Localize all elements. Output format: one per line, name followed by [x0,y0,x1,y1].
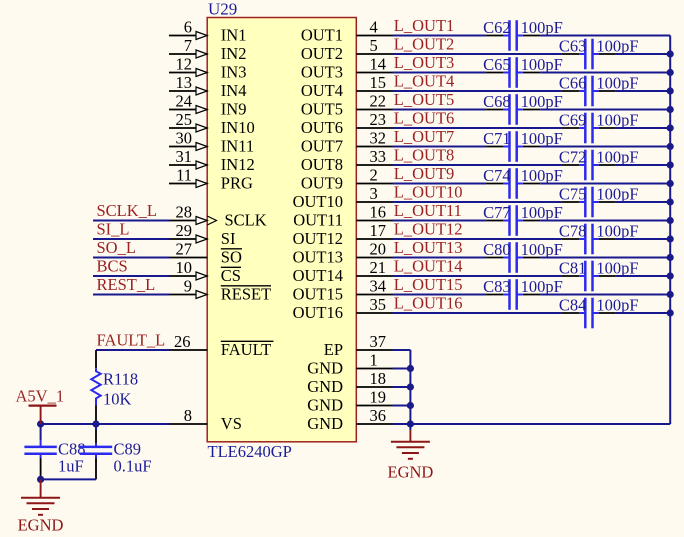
wire OUT2 pin to capacitor C63 [393,53,562,55]
svg-text:OUT16: OUT16 [293,303,343,322]
junction node VS at A5V_1 [37,420,44,427]
svg-text:100pF: 100pF [596,185,638,204]
designator label C78 [559,222,587,241]
svg-text:OUT6: OUT6 [301,118,343,137]
wire capacitor C72 to right bus [616,164,670,166]
svg-text:OUT1: OUT1 [301,25,343,44]
wire net SI_L [93,238,169,240]
wire EP pin 37 to EP bus [393,349,411,351]
capacitor C88 [24,440,56,462]
svg-text:OUT15: OUT15 [293,284,343,303]
wire right vertical bus [669,36,671,425]
wire capacitor C78 to right bus [616,238,670,240]
wire C88 to ground node [40,461,42,479]
value label 100pF for C74 [521,166,563,185]
pin 25 IN10 input pin with arrow [169,110,255,137]
svg-text:100pF: 100pF [521,129,563,148]
power port A5V_1 symbol [29,406,57,424]
svg-text:100pF: 100pF [596,37,638,56]
junction right bus row 7 [667,143,674,150]
wire capacitor C66 to right bus [616,90,670,92]
junction right bus row 5 [667,106,674,113]
net label L_OUT4 [394,72,455,91]
value label 100pF for C83 [521,277,563,296]
svg-text:29: 29 [176,221,193,240]
svg-text:FAULT: FAULT [221,340,271,359]
svg-text:C80: C80 [483,240,511,259]
wire OUT5 pin to capacitor C68 [393,109,487,111]
value label 100pF for C75 [596,185,638,204]
junction right bus row 4 [667,87,674,94]
svg-text:IN11: IN11 [221,136,254,155]
net label L_OUT12 [394,220,463,239]
junction right bus row 3 [667,69,674,76]
wire OUT7 pin to capacitor C71 [393,146,487,148]
svg-text:GND: GND [307,358,343,377]
pin 19 GND pin [307,388,392,415]
svg-text:15: 15 [370,73,387,92]
wire OUT14 pin to capacitor C81 [393,275,562,277]
svg-text:21: 21 [370,258,387,277]
power label EGND right [387,462,433,481]
wire VS supply rail [41,423,169,425]
svg-text:24: 24 [176,92,193,111]
svg-text:SO: SO [221,247,242,266]
svg-text:SI: SI [221,229,236,248]
wire FAULT_L corner down to resistor [95,350,97,368]
pin 13 IN4 input pin with arrow [169,73,246,100]
pin 23 OUT6 output pin [301,110,393,137]
svg-text:100pF: 100pF [596,111,638,130]
svg-text:EGND: EGND [387,462,433,481]
svg-text:100pF: 100pF [596,259,638,278]
svg-text:L_OUT14: L_OUT14 [394,257,463,276]
svg-text:28: 28 [176,203,193,222]
wire capacitor C81 to right bus [616,275,670,277]
net label L_OUT2 [394,35,455,54]
svg-text:100pF: 100pF [521,203,563,222]
svg-text:IN1: IN1 [221,25,247,44]
net label L_OUT15 [394,275,463,294]
svg-text:100pF: 100pF [521,240,563,259]
net label L_OUT1 [394,16,455,35]
svg-text:6: 6 [184,18,192,37]
svg-text:L_OUT2: L_OUT2 [394,35,455,54]
pin 24 IN9 input pin with arrow [169,92,246,119]
svg-text:U29: U29 [208,0,237,18]
svg-text:C63: C63 [559,37,587,56]
pin 30 IN11 input pin with arrow [169,129,254,156]
capacitor C74 [486,168,540,199]
svg-text:36: 36 [370,406,387,425]
junction right bus row 6 [667,124,674,131]
svg-text:C81: C81 [559,259,587,278]
capacitor C69 [562,113,616,144]
wire OUT15 pin to capacitor C83 [393,294,487,296]
svg-text:C84: C84 [559,296,587,315]
capacitor C63 [562,39,616,70]
pin 11 PRG input pin with arrow [169,166,253,193]
net label SCLK_L [97,201,158,220]
value label 0.1uF [114,457,152,476]
svg-text:7: 7 [184,36,192,55]
pin 2 OUT9 output pin [301,166,393,193]
value label 1uF [58,457,84,476]
svg-text:OUT2: OUT2 [301,44,343,63]
pin 12 IN3 input pin with arrow [169,55,246,82]
wire net SCLK_L [93,220,169,222]
svg-text:11: 11 [176,166,192,185]
wire OUT13 pin to capacitor C80 [393,257,487,259]
junction EP bus row 19 [407,365,414,372]
svg-text:C78: C78 [559,222,587,241]
net label L_OUT6 [394,109,455,128]
designator label C65 [483,55,511,74]
svg-text:L_OUT11: L_OUT11 [394,201,462,220]
wire VS node to C89 [95,424,97,430]
svg-text:0.1uF: 0.1uF [114,457,152,476]
svg-text:34: 34 [370,277,387,296]
resistor R118 [91,368,100,405]
svg-text:IN2: IN2 [221,44,247,63]
svg-text:IN10: IN10 [221,118,255,137]
svg-text:SI_L: SI_L [97,220,130,239]
svg-text:C74: C74 [483,166,511,185]
svg-text:L_OUT1: L_OUT1 [394,16,455,35]
svg-text:L_OUT6: L_OUT6 [394,109,455,128]
wire capacitor C68 to right bus [540,109,670,111]
svg-text:C75: C75 [559,185,587,204]
svg-text:OUT5: OUT5 [301,99,343,118]
svg-text:14: 14 [370,55,387,74]
designator label C77 [483,203,511,222]
designator label C66 [559,74,587,93]
value label 100pF for C72 [596,148,638,167]
wire net BCS [93,275,169,277]
pin 5 OUT2 output pin [301,36,393,63]
svg-text:OUT10: OUT10 [293,192,343,211]
capacitor C62 [486,20,540,51]
junction right bus row 9 [667,180,674,187]
wire capacitor C84 to right bus [616,312,670,314]
svg-text:4: 4 [370,18,378,37]
wire capacitor C80 to right bus [540,257,670,259]
value label 100pF for C80 [521,240,563,259]
svg-text:BCS: BCS [97,257,128,276]
pin 6 IN1 input pin with arrow [169,18,246,45]
svg-text:31: 31 [176,147,193,166]
ground EGND left symbol [21,479,60,514]
svg-text:C68: C68 [483,92,511,111]
junction right bus row 11 [667,217,674,224]
svg-text:25: 25 [176,110,193,129]
wire A5V node to C88 [40,424,42,440]
svg-text:PRG: PRG [221,173,253,192]
IC U29 TLE6240GP body [207,18,356,442]
pin 37 EP pin [324,332,393,359]
pin 20 OUT13 output pin [293,240,393,267]
svg-text:OUT11: OUT11 [293,210,343,229]
svg-text:IN4: IN4 [221,81,247,100]
capacitor C89 [80,430,112,462]
wire capacitor C75 to right bus [616,201,670,203]
svg-text:OUT13: OUT13 [293,247,343,266]
value label 10K [103,390,132,409]
svg-text:EP: EP [324,340,343,359]
svg-text:CS: CS [221,266,241,285]
capacitor C81 [562,261,616,292]
pin 17 OUT12 output pin [293,221,393,248]
svg-text:C72: C72 [559,148,587,167]
net label L_OUT7 [394,127,455,146]
wire GND pin 18 to EP bus [393,386,411,388]
svg-text:19: 19 [370,388,387,407]
wire GND pin 36 to EP bus [393,423,411,425]
svg-text:100pF: 100pF [521,92,563,111]
pin 7 IN2 input pin with arrow [169,36,246,63]
pin 9 RESET input pin with overline [169,277,271,304]
net label L_OUT16 [394,294,463,313]
net label L_OUT3 [394,53,455,72]
value label 100pF for C62 [521,18,563,37]
svg-text:C69: C69 [559,111,587,130]
svg-text:OUT14: OUT14 [293,266,343,285]
value label 100pF for C65 [521,55,563,74]
pin 15 OUT4 output pin [301,73,393,100]
pin 36 GND pin [307,406,392,433]
value label 100pF for C68 [521,92,563,111]
junction right bus row 12 [667,235,674,242]
junction right bus row 10 [667,198,674,205]
net label L_OUT9 [394,164,455,183]
junction EP bus row 22 [407,420,414,427]
capacitor C80 [486,242,540,273]
svg-text:100pF: 100pF [521,277,563,296]
svg-text:OUT3: OUT3 [301,62,343,81]
junction right bus row 14 [667,272,674,279]
designator label C72 [559,148,587,167]
wire OUT1 pin to capacitor C62 [393,35,487,37]
wire OUT4 pin to capacitor C66 [393,90,562,92]
designator label C68 [483,92,511,111]
svg-text:20: 20 [370,240,387,259]
wire OUT6 pin to capacitor C69 [393,127,562,129]
designator label C84 [559,296,587,315]
svg-text:100pF: 100pF [596,74,638,93]
svg-text:RESET: RESET [221,284,271,303]
pin 31 IN12 input pin with arrow [169,147,255,174]
wire net REST_L [93,294,169,296]
wire GND pin 19 to EP bus [393,405,411,407]
capacitor C84 [562,298,616,329]
svg-text:OUT4: OUT4 [301,81,343,100]
pin 32 OUT7 output pin [301,129,393,156]
capacitor C68 [486,94,540,125]
wire OUT16 pin to capacitor C84 [393,312,562,314]
value label 100pF for C77 [521,203,563,222]
svg-text:100pF: 100pF [596,296,638,315]
svg-text:C83: C83 [483,277,511,296]
pin 33 OUT8 output pin [301,147,393,174]
capacitor C71 [486,131,540,162]
net label L_OUT14 [394,257,463,276]
net label L_OUT13 [394,238,463,257]
capacitor C72 [562,150,616,181]
svg-text:FAULT_L: FAULT_L [97,331,166,350]
pin 1 GND pin [307,351,392,378]
svg-text:23: 23 [370,110,387,129]
designator label C80 [483,240,511,259]
svg-text:30: 30 [176,129,193,148]
svg-text:GND: GND [307,414,343,433]
wire resistor R118 to VS node [95,406,97,425]
capacitor C75 [562,187,616,218]
svg-text:SCLK: SCLK [225,210,267,229]
power label A5V_1 [16,386,65,405]
junction right bus row 2 [667,50,674,57]
capacitor C66 [562,76,616,107]
svg-text:3: 3 [370,184,378,203]
designator label C88 [58,440,86,459]
pin 10 CS input pin with overline [169,258,241,285]
svg-text:12: 12 [176,55,193,74]
designator label C81 [559,259,587,278]
svg-text:2: 2 [370,166,378,185]
pin 8 VS pin [169,406,242,433]
value label TLE6240GP [208,442,292,461]
svg-text:OUT12: OUT12 [293,229,343,248]
junction right bus row 16 [667,309,674,316]
designator label C89 [114,440,142,459]
wire OUT9 pin to capacitor C74 [393,183,487,185]
svg-text:16: 16 [370,203,387,222]
wire EP ground bus vertical [409,350,411,424]
svg-text:1: 1 [370,351,378,370]
value label 100pF for C66 [596,74,638,93]
net label SI_L [97,220,130,239]
wire capacitor C71 to right bus [540,146,670,148]
net label REST_L [97,275,156,294]
pin 3 OUT10 output pin [293,184,393,211]
svg-text:35: 35 [370,295,387,314]
designator label C62 [483,18,511,37]
svg-text:100pF: 100pF [521,55,563,74]
wire OUT10 pin to capacitor C75 [393,201,562,203]
svg-text:C66: C66 [559,74,587,93]
svg-text:26: 26 [174,332,191,351]
value label 100pF for C81 [596,259,638,278]
wire GND pin 1 to EP bus [393,368,411,370]
svg-text:TLE6240GP: TLE6240GP [208,442,292,461]
junction EP bus row 20 [407,383,414,390]
svg-text:REST_L: REST_L [97,275,156,294]
svg-text:100pF: 100pF [596,222,638,241]
wire OUT12 pin to capacitor C78 [393,238,562,240]
svg-text:IN12: IN12 [221,155,255,174]
svg-text:L_OUT12: L_OUT12 [394,220,463,239]
svg-text:13: 13 [176,73,193,92]
svg-text:100pF: 100pF [521,18,563,37]
wire OUT8 pin to capacitor C72 [393,164,562,166]
pin 22 OUT5 output pin [301,92,393,119]
wire OUT3 pin to capacitor C65 [393,72,487,74]
svg-text:L_OUT10: L_OUT10 [394,183,463,202]
wire GND row to right bus [410,423,670,425]
svg-text:R118: R118 [103,370,138,389]
wire capacitor C65 to right bus [540,72,670,74]
junction right bus row 13 [667,254,674,261]
designator label C83 [483,277,511,296]
power label EGND left [18,516,64,535]
junction right bus row 8 [667,161,674,168]
capacitor C78 [562,224,616,255]
svg-text:L_OUT13: L_OUT13 [394,238,463,257]
pin 29 SI input pin [169,221,235,248]
svg-text:OUT7: OUT7 [301,136,343,155]
designator label C63 [559,37,587,56]
junction ground node [37,476,44,483]
svg-text:L_OUT9: L_OUT9 [394,164,455,183]
svg-text:A5V_1: A5V_1 [16,386,65,405]
svg-text:SO_L: SO_L [97,238,136,257]
svg-text:L_OUT5: L_OUT5 [394,90,455,109]
value label 100pF for C71 [521,129,563,148]
svg-text:33: 33 [370,147,387,166]
value label 100pF for C63 [596,37,638,56]
svg-text:37: 37 [370,332,387,351]
designator label C71 [483,129,511,148]
pin 28 SCLK clock input pin [169,203,267,230]
pin 16 OUT11 output pin [293,203,392,230]
svg-text:OUT9: OUT9 [301,173,343,192]
svg-text:EGND: EGND [18,516,64,535]
svg-text:C62: C62 [483,18,511,37]
svg-text:C65: C65 [483,55,511,74]
wire net FAULT_L horizontal [96,349,169,351]
svg-text:C77: C77 [483,203,511,222]
svg-text:IN3: IN3 [221,62,247,81]
pin 4 OUT1 output pin [301,18,393,45]
wire net SO_L [93,257,169,259]
net label L_OUT8 [394,146,455,165]
svg-text:22: 22 [370,92,387,111]
pin 14 OUT3 output pin [301,55,393,82]
svg-text:32: 32 [370,129,387,148]
net label SO_L [97,238,136,257]
wire capacitor C74 to right bus [540,183,670,185]
junction EP bus row 21 [407,402,414,409]
svg-text:L_OUT4: L_OUT4 [394,72,455,91]
wire C89 down and left to ground node [41,461,96,479]
svg-text:1uF: 1uF [58,457,84,476]
ground EGND right symbol [391,424,430,459]
wire capacitor C69 to right bus [616,127,670,129]
wire capacitor C62 to right bus [540,35,670,37]
svg-text:L_OUT16: L_OUT16 [394,294,463,313]
pin 35 OUT16 output pin [293,295,393,322]
svg-text:GND: GND [307,395,343,414]
svg-text:5: 5 [370,36,378,55]
svg-text:L_OUT8: L_OUT8 [394,146,455,165]
designator U29 [208,0,237,18]
svg-text:OUT8: OUT8 [301,155,343,174]
svg-text:C71: C71 [483,129,511,148]
net label FAULT_L [97,331,166,350]
junction node VS at R118 [92,420,99,427]
net label L_OUT11 [394,201,462,220]
svg-text:9: 9 [184,277,192,296]
capacitor C77 [486,205,540,236]
